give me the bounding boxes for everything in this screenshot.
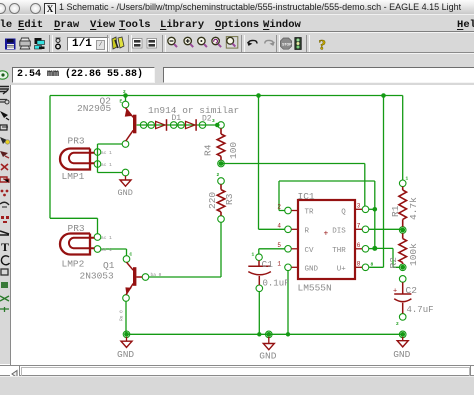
svg-text:+: + <box>393 287 397 295</box>
empty parameter bar <box>0 53 474 64</box>
transistor Q2 body <box>125 108 137 141</box>
zoom select icon <box>226 37 238 49</box>
wire ground bottom rail <box>127 333 403 335</box>
svg-text:4.7k: 4.7k <box>408 197 419 220</box>
junction R1/R2/DIS node <box>400 228 405 233</box>
wire left supply drop to LMP2 <box>50 96 98 234</box>
svg-text:C2: C2 <box>406 285 418 296</box>
ground under LMP1 <box>120 176 131 186</box>
zoom out icon <box>198 37 207 47</box>
svg-text:ac 1: ac 1 <box>101 247 112 253</box>
svg-text:100: 100 <box>228 142 239 159</box>
svg-text:ba 0: ba 0 <box>151 272 162 278</box>
wire Q1 emitter drop <box>125 301 127 334</box>
svg-text:3: 3 <box>357 203 361 210</box>
junction rail / Q1 emitter <box>124 332 129 337</box>
wire VCC to U+ pin 8 <box>369 96 383 268</box>
svg-text:PR3: PR3 <box>68 135 85 146</box>
svg-text:GND: GND <box>117 349 134 360</box>
junction THR net <box>372 246 377 251</box>
svg-text:2: 2 <box>396 321 399 327</box>
IC1 pin stubs right <box>355 209 362 267</box>
svg-text:IC1: IC1 <box>298 191 315 202</box>
pin R4 bottom <box>218 160 225 167</box>
op-amp timer IC1 body <box>298 200 355 279</box>
svg-text:6: 6 <box>357 242 361 249</box>
junction VCC / Q2 emitter <box>123 93 128 98</box>
status bar <box>0 376 474 395</box>
svg-text:?: ? <box>319 38 327 54</box>
print icon <box>20 38 31 49</box>
zoom in icon <box>184 37 193 47</box>
svg-text:4: 4 <box>277 223 281 230</box>
coordinate bar <box>0 64 474 85</box>
pin R3 top <box>218 178 225 185</box>
svg-text:2N3053: 2N3053 <box>80 271 115 282</box>
svg-text:5: 5 <box>277 242 281 249</box>
svg-text:GND: GND <box>393 349 410 360</box>
schematic canvas <box>12 85 474 365</box>
junction VCC / reset riser <box>256 93 261 98</box>
pin D2 anode <box>178 122 185 129</box>
wire Q2 emitter stub <box>125 96 127 102</box>
svg-text:Q1: Q1 <box>103 260 115 271</box>
pin Q1 base <box>142 274 149 281</box>
IC1 pin stubs left <box>292 211 299 268</box>
svg-text:GND: GND <box>118 188 133 198</box>
svg-text:1: 1 <box>252 252 255 258</box>
window brd icon <box>147 39 157 49</box>
svg-text:2: 2 <box>277 204 281 211</box>
pin C2 minus <box>399 314 406 321</box>
svg-text:THR: THR <box>332 247 346 255</box>
svg-text:LM555N: LM555N <box>298 282 332 293</box>
zoom fit icon <box>168 37 177 47</box>
junction rail / IC ground <box>286 332 290 336</box>
cam processor icon <box>35 38 45 49</box>
pin LMP1 gnd node <box>122 169 129 176</box>
redo icon <box>265 40 274 45</box>
svg-text:CV: CV <box>305 247 315 255</box>
pin IC1 CV 5 <box>285 246 292 253</box>
diode D2 <box>186 119 197 131</box>
window sch icon <box>133 39 143 49</box>
diode D1 <box>156 119 167 131</box>
wire THR jog to R2 bottom <box>375 248 400 267</box>
toolbar <box>0 32 474 53</box>
svg-text:E: E <box>120 99 123 105</box>
traffic light icon <box>295 38 302 50</box>
svg-text:LMP1: LMP1 <box>62 171 85 182</box>
pin Q1 collector <box>123 256 130 263</box>
wire node R4/R3 junction to Q output <box>221 164 365 207</box>
svg-text:+: + <box>324 230 329 239</box>
mark/eye icon <box>0 71 8 79</box>
svg-text:8: 8 <box>371 262 374 268</box>
svg-text:LMP2: LMP2 <box>62 258 85 269</box>
pin C1 bottom <box>256 285 263 292</box>
horizontal scrollbar <box>0 365 474 376</box>
pin R4 top <box>218 122 225 129</box>
capacitor C1 <box>248 261 271 285</box>
wire Q pin stub to TR net <box>369 208 375 210</box>
lamp LMP2 <box>60 234 94 255</box>
junction rail / C2 <box>400 332 405 337</box>
lamp LMP1 <box>60 149 94 170</box>
junction VCC / U+ riser <box>381 93 386 98</box>
svg-text:4.7uF: 4.7uF <box>407 305 434 315</box>
pin gnd rail mid <box>266 331 273 338</box>
junction R2/C2/THR node <box>400 265 405 270</box>
wire Q2 base to diode chain <box>137 124 218 126</box>
svg-text:R: R <box>305 228 310 236</box>
pin R1 top <box>399 180 406 187</box>
pin IC1 DIS 7 <box>362 226 369 233</box>
svg-text:0.1uF: 0.1uF <box>263 278 290 288</box>
svg-text:8: 8 <box>357 261 361 268</box>
pin Q2 base <box>140 122 147 129</box>
wire C1 to ground rail <box>258 292 260 335</box>
pin R1 bottom <box>399 227 406 234</box>
pin C1 top <box>256 254 263 261</box>
svg-text:GND: GND <box>305 266 319 274</box>
pin IC1 Q 3 <box>362 206 369 213</box>
svg-text:100k: 100k <box>408 243 419 266</box>
save icon <box>5 39 16 50</box>
wire TR net riser <box>279 181 375 248</box>
svg-text:PR3: PR3 <box>68 223 85 234</box>
svg-text:3: 3 <box>212 118 215 124</box>
pin LMP2 terminal 1 <box>94 234 101 241</box>
svg-text:R1: R1 <box>390 205 401 217</box>
svg-text:R4: R4 <box>202 144 213 156</box>
svg-text:Re 0: Re 0 <box>118 310 124 321</box>
wire VCC top rail <box>50 95 403 97</box>
wire VCC to R1 top <box>402 96 404 181</box>
svg-text:2: 2 <box>217 172 220 178</box>
resistor R2 <box>399 233 407 264</box>
svg-text:T: T <box>1 240 9 254</box>
pin LMP1 terminal 2 <box>94 161 101 168</box>
svg-text:TR: TR <box>305 209 315 217</box>
pin gnd rail left <box>123 331 130 338</box>
junction R4/R3 node <box>219 161 224 166</box>
pin Q2 collector <box>122 141 129 148</box>
window title bar <box>0 0 474 15</box>
pin D2 cathode <box>199 122 206 129</box>
ground bottom right <box>397 337 408 347</box>
wire VCC to reset pin R <box>259 96 285 230</box>
svg-text:1n914 or similar: 1n914 or similar <box>148 105 239 116</box>
pin LMP2 terminal 2 <box>94 246 101 253</box>
menu bar <box>0 14 474 32</box>
svg-text:C: C <box>130 252 133 258</box>
pin D1 cathode <box>170 122 177 129</box>
svg-text:R2: R2 <box>388 257 399 269</box>
svg-text:ac 1: ac 1 <box>101 235 112 241</box>
pin R2 bottom <box>399 264 406 271</box>
junction Q output on TR net <box>373 207 378 212</box>
wire LMP1 loop <box>98 144 123 173</box>
resistor R3 <box>217 184 225 215</box>
pin IC1 THR 6 <box>362 246 369 253</box>
wire THR pin stub <box>369 248 375 250</box>
svg-text:1: 1 <box>277 261 281 268</box>
svg-text:C1: C1 <box>262 259 274 270</box>
svg-text:DIS: DIS <box>332 228 346 236</box>
pin C2 plus <box>399 276 406 283</box>
resistor R1 <box>399 187 407 227</box>
svg-text:U+: U+ <box>337 266 347 274</box>
junction rail / C1 <box>257 332 261 336</box>
svg-text:D2: D2 <box>202 114 212 123</box>
wire GND pin 1 drop <box>287 271 289 335</box>
pin IC1 TR 2 <box>285 207 292 214</box>
pin IC1 U+ 8 <box>362 264 369 271</box>
wire LMP2 to Q1 collector <box>101 249 127 256</box>
svg-text:2: 2 <box>123 89 126 95</box>
svg-text:2N2905: 2N2905 <box>77 103 112 114</box>
zoom redraw icon <box>212 37 221 47</box>
pin Q1 emitter <box>123 295 130 302</box>
ground bottom left <box>121 337 132 348</box>
library use icon <box>110 36 126 50</box>
svg-text:ac 1: ac 1 <box>101 150 112 156</box>
pin IC1 GND 1 <box>285 264 292 271</box>
wire CV to C1 <box>259 249 285 254</box>
junction diode chain / R4 <box>215 123 220 128</box>
pin LMP1 terminal 1 <box>94 149 101 156</box>
transistor Q1 body <box>125 262 142 295</box>
resistor R4 <box>217 128 225 160</box>
pin D1 anode <box>148 122 155 129</box>
sheet icon <box>56 38 61 49</box>
wire R3 bottom to Q1 base <box>149 222 221 277</box>
svg-text:7: 7 <box>357 223 361 230</box>
svg-text:Q: Q <box>341 209 346 217</box>
svg-text:220: 220 <box>207 192 218 209</box>
pin gnd rail right <box>399 331 406 338</box>
svg-text:GND: GND <box>259 350 276 361</box>
junction rail / GND symbol <box>266 332 271 337</box>
svg-text:R3: R3 <box>224 193 235 205</box>
svg-text:ac 1: ac 1 <box>101 162 112 168</box>
svg-text:D1: D1 <box>172 114 182 123</box>
undo icon <box>248 40 257 45</box>
wire DIS to R1/R2 junction <box>369 228 403 230</box>
svg-text:1: 1 <box>406 176 409 182</box>
pin R3 bottom <box>218 216 225 223</box>
pin IC1 R 4 <box>285 226 292 233</box>
pin Q2 emitter <box>122 101 129 108</box>
ground bottom middle <box>263 337 274 350</box>
stop icon <box>280 38 292 49</box>
left command toolbar (cut off at window edge) <box>0 85 10 364</box>
svg-text:STOP: STOP <box>282 42 292 46</box>
capacitor C2 <box>394 282 411 313</box>
